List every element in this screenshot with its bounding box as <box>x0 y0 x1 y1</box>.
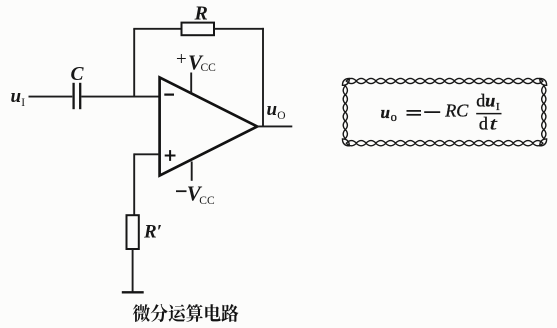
wire R to right corner <box>214 28 264 30</box>
svg-text:d: d <box>476 90 485 110</box>
svg-text:CC: CC <box>199 195 215 207</box>
op-amp plus pin mark <box>165 150 176 161</box>
ground <box>122 291 144 293</box>
capacitor C <box>74 83 81 109</box>
-Vcc label <box>176 190 187 192</box>
svg-text:+: + <box>176 49 187 70</box>
formula uo = -RC duI/dt <box>381 90 502 133</box>
wire noninverting input horizontal <box>134 153 159 155</box>
svg-text:R: R <box>194 2 208 24</box>
op-amp U1 <box>160 77 258 175</box>
formula box chain border <box>343 78 546 145</box>
svg-text:u: u <box>485 91 495 111</box>
svg-text:O: O <box>277 110 285 122</box>
wire feedback left vertical <box>133 29 135 97</box>
svg-text:d: d <box>479 113 488 133</box>
wire output <box>257 125 292 127</box>
svg-text:CC: CC <box>201 62 217 74</box>
wire R' to ground <box>132 249 134 292</box>
svg-text:u: u <box>267 99 278 120</box>
svg-text:C: C <box>71 64 85 85</box>
wire C to inverting input <box>81 96 159 98</box>
wire input uI to C <box>29 96 73 98</box>
svg-text:o: o <box>391 110 397 124</box>
svg-text:R′: R′ <box>143 221 162 242</box>
resistor R <box>182 23 215 36</box>
svg-text:I: I <box>496 101 500 113</box>
svg-text:I: I <box>21 97 25 109</box>
op-amp minus pin mark <box>164 93 174 95</box>
wire noninverting down to R' <box>133 153 135 215</box>
svg-text:u: u <box>381 103 390 122</box>
svg-text:RC: RC <box>444 100 469 120</box>
svg-text:u: u <box>11 86 22 107</box>
caption 微分运算电路 <box>133 304 239 322</box>
wire feedback right vertical <box>262 28 264 127</box>
+Vcc supply wire <box>190 73 192 93</box>
resistor R' <box>127 215 139 249</box>
wire top left to R <box>133 28 181 30</box>
-Vcc supply wire <box>191 162 193 181</box>
